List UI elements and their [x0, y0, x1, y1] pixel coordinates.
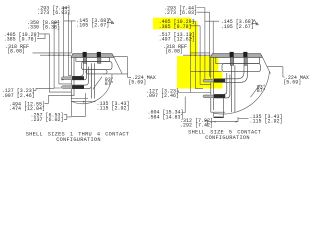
left web of extension lines to pins — [34, 8, 75, 104]
right body block B — [222, 64, 261, 72]
right pin 2 — [203, 94, 225, 98]
svg-text:.097 [2.46]: .097 [2.46] — [146, 93, 179, 99]
left pin 2 — [62, 85, 85, 89]
left contact 1 — [83, 52, 87, 63]
dim label .135/.115 left — [97, 101, 130, 112]
svg-text:87°: 87° — [105, 81, 114, 87]
web horizontal right — [183, 54, 210, 56]
svg-text:CONFIGURATION: CONFIGURATION — [56, 137, 101, 143]
web vertical r1 — [191, 34, 211, 93]
left contact tail 2 — [72, 67, 91, 89]
svg-text:.273 [6.93]: .273 [6.93] — [164, 10, 197, 16]
leader .293/.273 — [64, 8, 69, 13]
left .224 assembly — [103, 57, 131, 78]
right through-pin tails — [232, 65, 235, 112]
dim label .135/.115 right — [250, 114, 283, 125]
leader .127/.097 bracket right — [177, 91, 191, 93]
web vertical r4 — [203, 8, 205, 81]
leader .405/.385 — [37, 34, 49, 39]
svg-text:[5.69]: [5.69] — [283, 80, 301, 86]
right bottom box — [211, 112, 249, 122]
svg-text:.330 [8.38]: .330 [8.38] — [27, 25, 60, 31]
right contact tail 2 — [214, 73, 230, 98]
right body bottom thick — [214, 117, 224, 118]
dim label .318 REF right — [163, 44, 187, 55]
right contact tail 1 — [214, 65, 248, 82]
leader .318 REF right long horizontal — [190, 52, 210, 54]
right contact 1 — [230, 52, 234, 65]
junction dots — [49, 55, 50, 56]
svg-text:.115 [2.92]: .115 [2.92] — [97, 106, 130, 112]
left body wall inner — [73, 57, 75, 96]
leader lines top-left labels — [33, 8, 76, 54]
web vertical 4 — [61, 8, 64, 80]
leader .517/.497 — [191, 34, 193, 39]
svg-text:[8.08]: [8.08] — [165, 49, 183, 55]
web vertical r5 — [210, 12, 211, 76]
svg-text:.385 [9.78]: .385 [9.78] — [159, 24, 192, 30]
yellow highlight blob over right drawing — [153, 18, 223, 89]
left pin 1 — [62, 76, 85, 80]
left contact tail 1 — [72, 63, 87, 80]
right pin 1 — [203, 79, 225, 83]
dim label .127/.097 — [2, 88, 35, 99]
dim label .312/.292 — [180, 118, 213, 129]
leader .604/.584 — [182, 97, 186, 113]
right body block A — [216, 57, 260, 63]
left angle arc — [74, 74, 112, 104]
leader .494/.474 — [44, 96, 74, 104]
right block B bottom extension line — [191, 71, 223, 73]
svg-text:.115 [2.92]: .115 [2.92] — [250, 119, 283, 125]
caption left — [26, 132, 130, 144]
right contact 2 — [243, 52, 247, 65]
junction dots right — [190, 55, 191, 56]
web vertical 2 — [54, 22, 61, 88]
dim label .350/.330 — [27, 20, 60, 31]
web vertical r2 — [195, 21, 203, 88]
svg-text:[5.69]: [5.69] — [128, 79, 146, 85]
angle label 93/87 right — [257, 84, 266, 94]
leader to .135 label — [86, 101, 96, 103]
dim label .224 MAX left — [128, 75, 156, 86]
leader to .135 right label — [238, 118, 249, 120]
right inner wall — [223, 98, 225, 117]
dim label .405/.385 — [4, 32, 40, 43]
dim arrows .135 — [71, 101, 85, 103]
svg-text:.105 [2.67]: .105 [2.67] — [76, 23, 109, 29]
left through-pin tails — [91, 63, 94, 98]
web vertical 1 — [49, 34, 71, 92]
left body block C — [86, 70, 107, 74]
angle label 93/87 left — [105, 77, 114, 87]
dim label .293/.273 — [37, 5, 70, 16]
dim label .405/.385 right (highlighted) — [159, 19, 195, 30]
leader .293/.273 right — [197, 8, 210, 13]
left bottom box — [71, 93, 95, 116]
svg-text:.584 [14.83]: .584 [14.83] — [148, 114, 184, 120]
svg-text:.105 [2.67]: .105 [2.67] — [221, 24, 254, 30]
web vertical r3 — [200, 26, 211, 85]
svg-text:.292 [7.42]: .292 [7.42] — [180, 123, 213, 129]
dim label .517/.497 — [159, 32, 195, 43]
dim label .494/.474 — [9, 101, 45, 112]
right cap plate — [211, 54, 263, 58]
left angle tick line — [93, 77, 102, 90]
dim label .604/.584 — [148, 110, 184, 121]
dim label .318 REF — [5, 44, 29, 55]
dim line .312 — [213, 121, 238, 123]
web vertical 5 — [69, 12, 72, 75]
right body wall outer — [210, 57, 212, 112]
svg-text:[8.08]: [8.08] — [7, 49, 25, 55]
svg-text:CONFIGURATION: CONFIGURATION — [205, 135, 250, 141]
svg-text:.273 [6.93]: .273 [6.93] — [37, 10, 70, 16]
dim label .127/.097 right — [146, 89, 179, 100]
svg-text:.385 [9.78]: .385 [9.78] — [4, 36, 37, 42]
right .224 assembly — [263, 57, 285, 77]
left body bottom — [71, 98, 88, 100]
web vertical 3 — [59, 27, 71, 84]
leader .145/.105 horizontal — [64, 21, 76, 54]
left body block B — [82, 61, 113, 69]
left body block A — [76, 57, 110, 61]
right body wall inner — [213, 57, 215, 110]
caption right — [188, 129, 261, 141]
leader lines top labels right — [190, 8, 220, 54]
web horizontal with tee dots — [40, 54, 71, 56]
dim label .293/.273 right — [164, 5, 197, 16]
right web of extension lines to pins — [177, 8, 223, 113]
leader .350/.330 — [54, 22, 59, 27]
svg-text:.474 [12.04]: .474 [12.04] — [9, 106, 45, 112]
leader .127/.097 bracket — [34, 88, 55, 90]
leader .405/.385 right — [190, 21, 201, 26]
svg-text:.497 [12.62]: .497 [12.62] — [159, 36, 195, 42]
right angle arc — [214, 72, 270, 115]
svg-text:.237 [6.02]: .237 [6.02] — [31, 117, 64, 123]
left body wall outer — [70, 57, 72, 98]
right angle tick line — [251, 85, 260, 97]
left contact 2 — [97, 52, 101, 63]
dim label .145/.105 right with note triangle — [221, 19, 259, 30]
left cap plate — [71, 54, 114, 58]
dim label .145/.105 with note triangle — [76, 18, 113, 29]
leader .318 REF long horizontal — [33, 52, 72, 54]
dim label .224 MAX right — [283, 75, 309, 86]
dim label .257/.237 — [31, 112, 72, 123]
leader .145/.105 right — [205, 21, 219, 53]
svg-text:.097 [2.46]: .097 [2.46] — [2, 93, 35, 99]
